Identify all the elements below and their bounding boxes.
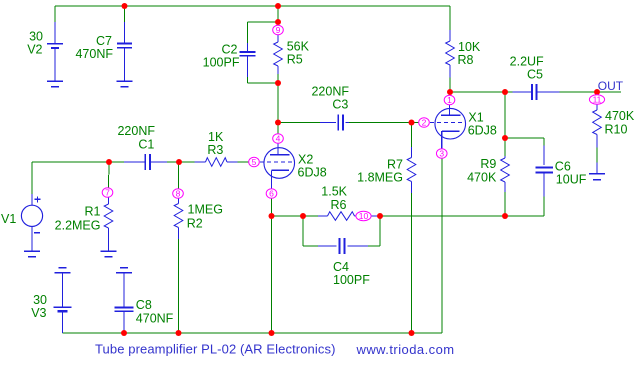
svg-text:220NF: 220NF <box>311 85 349 99</box>
svg-text:www.trioda.com: www.trioda.com <box>356 342 455 357</box>
svg-text:11: 11 <box>593 95 602 105</box>
svg-text:1.8MEG: 1.8MEG <box>357 171 403 185</box>
svg-text:5: 5 <box>252 157 257 167</box>
svg-text:R10: R10 <box>605 123 628 137</box>
svg-text:R1: R1 <box>85 205 101 219</box>
svg-text:R5: R5 <box>287 53 303 67</box>
svg-text:R2: R2 <box>187 217 203 231</box>
svg-text:100PF: 100PF <box>333 273 370 287</box>
svg-text:30: 30 <box>29 30 43 44</box>
svg-text:470NF: 470NF <box>136 312 174 326</box>
svg-text:3: 3 <box>439 149 444 159</box>
svg-text:30: 30 <box>33 293 47 307</box>
svg-text:9: 9 <box>276 25 281 35</box>
svg-text:470K: 470K <box>467 171 497 185</box>
svg-text:100PF: 100PF <box>203 56 240 70</box>
svg-text:56K: 56K <box>287 40 310 54</box>
svg-text:6DJ8: 6DJ8 <box>468 124 497 138</box>
svg-text:6DJ8: 6DJ8 <box>298 166 327 180</box>
svg-text:C1: C1 <box>138 138 154 152</box>
svg-text:C2: C2 <box>222 43 238 57</box>
svg-text:C7: C7 <box>96 34 112 48</box>
svg-text:2.2UF: 2.2UF <box>510 54 544 68</box>
svg-text:V2: V2 <box>27 43 42 57</box>
svg-text:R3: R3 <box>207 143 223 157</box>
svg-text:10K: 10K <box>458 40 481 54</box>
svg-text:1MEG: 1MEG <box>188 203 223 217</box>
svg-text:1: 1 <box>447 95 452 105</box>
svg-text:1.5K: 1.5K <box>321 185 347 199</box>
svg-text:R7: R7 <box>387 158 403 172</box>
svg-text:C4: C4 <box>333 260 349 274</box>
svg-text:10UF: 10UF <box>556 173 587 187</box>
svg-text:V1: V1 <box>1 212 16 226</box>
svg-text:2.2MEG: 2.2MEG <box>55 219 101 233</box>
svg-text:R9: R9 <box>480 157 496 171</box>
svg-text:6: 6 <box>269 189 274 199</box>
svg-text:R8: R8 <box>458 53 474 67</box>
svg-text:7: 7 <box>105 188 110 198</box>
svg-text:220NF: 220NF <box>117 124 155 138</box>
svg-text:1K: 1K <box>208 130 224 144</box>
svg-text:8: 8 <box>176 189 181 199</box>
svg-text:470NF: 470NF <box>75 47 113 61</box>
svg-text:10: 10 <box>359 211 369 221</box>
svg-text:R6: R6 <box>331 198 347 212</box>
svg-text:C8: C8 <box>136 298 152 312</box>
svg-text:470K: 470K <box>605 109 635 123</box>
svg-text:2: 2 <box>422 118 427 128</box>
svg-text:X2: X2 <box>298 153 313 167</box>
svg-text:X1: X1 <box>468 111 483 125</box>
svg-text:V3: V3 <box>31 306 46 320</box>
svg-text:4: 4 <box>276 134 281 144</box>
svg-text:C6: C6 <box>555 160 571 174</box>
svg-text:C3: C3 <box>332 98 348 112</box>
svg-text:OUT: OUT <box>598 79 624 93</box>
svg-text:Tube preamplifier PL-02 (AR El: Tube preamplifier PL-02 (AR Electronics) <box>95 341 336 356</box>
svg-text:C5: C5 <box>527 68 543 82</box>
